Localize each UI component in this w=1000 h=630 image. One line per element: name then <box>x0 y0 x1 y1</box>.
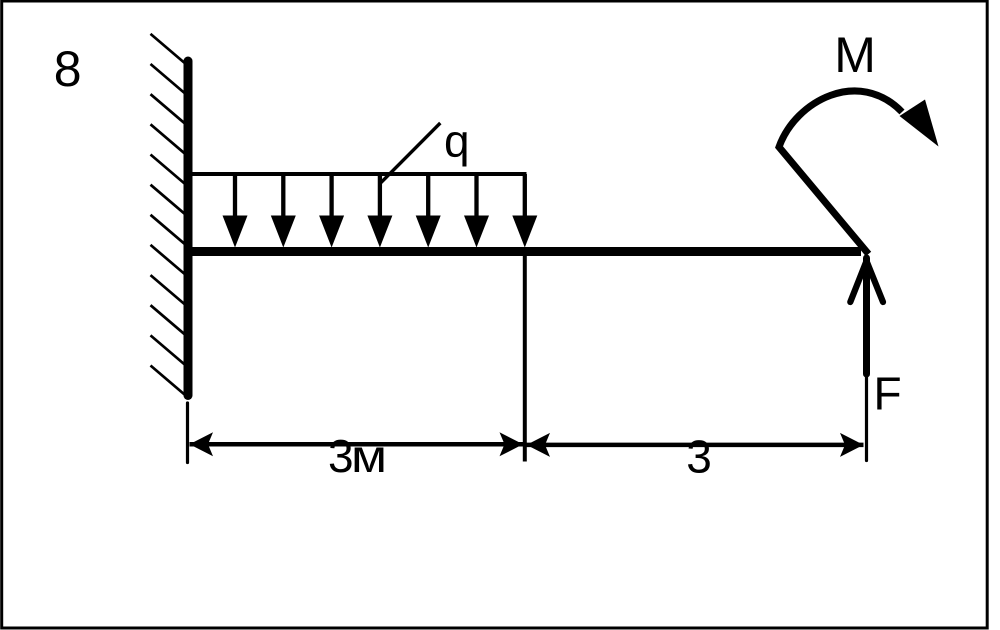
load arrow 6 <box>464 174 489 248</box>
load arrow 2 <box>271 174 296 248</box>
load arrow 5 <box>416 174 441 248</box>
svg-text:3: 3 <box>686 431 712 483</box>
svg-text:8: 8 <box>54 41 82 97</box>
svg-text:м: м <box>351 431 387 482</box>
moment lever line and arc <box>779 91 902 254</box>
extension line right <box>865 374 868 461</box>
extension line middle <box>523 254 527 462</box>
svg-text:q: q <box>444 115 470 167</box>
svg-text:M: M <box>834 27 876 83</box>
fixed support wall <box>184 61 193 396</box>
wall hatching <box>151 34 185 395</box>
moment arrowhead <box>900 100 939 147</box>
dimension line right span <box>527 433 864 457</box>
svg-text:F: F <box>874 367 902 419</box>
dimension line left span <box>190 432 524 456</box>
load arrow 4 <box>367 174 392 248</box>
distributed load top line <box>188 172 527 176</box>
svg-text:3: 3 <box>328 430 354 482</box>
load arrow 1 <box>223 174 248 248</box>
load arrow 7 <box>512 174 537 248</box>
force F arrow <box>850 258 883 374</box>
extension line left <box>186 403 189 463</box>
q pointer line <box>381 123 441 183</box>
load arrow 3 <box>319 174 344 248</box>
beam <box>188 247 861 256</box>
